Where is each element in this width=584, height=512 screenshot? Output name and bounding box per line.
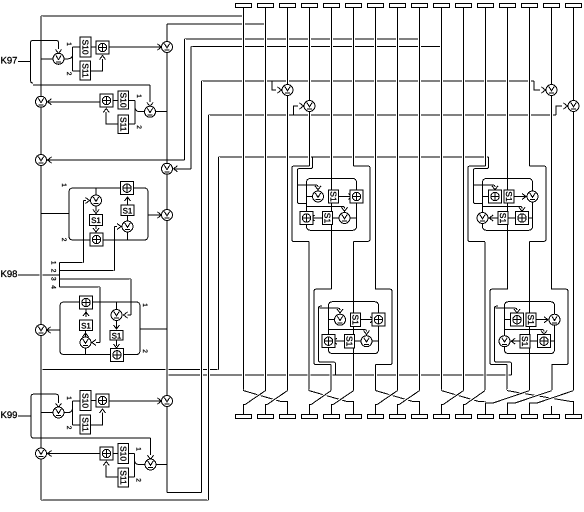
module M3 S1b-V2	[355, 340, 362, 342]
top terminal T12	[478, 4, 494, 8]
svg-text:2: 2	[135, 478, 142, 482]
K99a split curve	[68, 408, 73, 413]
cross wire feed7 to bar9 jog	[414, 402, 420, 415]
module M2 inner loop	[483, 179, 533, 231]
trunk T1	[242, 8, 245, 391]
cross wire feed8 to bar7	[377, 391, 398, 405]
svg-text:S11: S11	[80, 63, 90, 78]
svg-text:S1: S1	[520, 336, 530, 347]
trunk T12 upper	[484, 8, 487, 167]
XOR K99a	[96, 394, 109, 407]
trunk T3 upper	[286, 8, 289, 85]
cross wire feed5 to bar4	[311, 391, 331, 405]
module M3 V1	[335, 314, 346, 325]
XOR K99b	[100, 447, 113, 460]
K98 lower loop	[60, 302, 140, 355]
V node K99a	[53, 407, 64, 418]
module M1 arm1 hook	[298, 185, 319, 187]
rail to V K97a	[41, 58, 53, 60]
XOR K99a out	[109, 400, 161, 402]
bus from node V(167,47) to T2 y24	[167, 23, 266, 25]
trunk T9	[418, 8, 421, 391]
module M4 V2	[499, 336, 510, 347]
cross wire feed13 to bar16	[507, 391, 572, 402]
svg-text:3: 3	[50, 277, 57, 281]
module M4 V2 to S1b	[511, 340, 520, 342]
module M3 loop to V2	[372, 340, 379, 342]
S1r to XOR2	[127, 198, 129, 205]
loop to V K98l right	[116, 302, 118, 310]
arrow V to S1r K98l	[114, 325, 120, 329]
svg-text:S10: S10	[118, 92, 128, 107]
trunk T4 rerouted exit M1L	[308, 242, 311, 391]
svg-text:S1: S1	[81, 321, 91, 330]
hook w3	[128, 314, 132, 316]
module M3 V2	[361, 336, 372, 347]
net wire x167 middle	[166, 221, 169, 396]
module M3 S1a	[351, 313, 361, 326]
net wire x167 lower	[166, 407, 169, 493]
V node (167,215)	[162, 210, 173, 221]
box S10 K99a	[80, 391, 91, 411]
module M4 feed bend	[495, 306, 512, 375]
module M3 arrow S1a-XOR1	[370, 317, 374, 323]
svg-text:S1: S1	[329, 191, 339, 202]
module M1 arrow into cell1	[315, 186, 321, 190]
join x167	[161, 111, 167, 113]
svg-text:K99: K99	[1, 410, 18, 421]
bottom terminal B8	[390, 415, 406, 419]
cross wire feed11 to bar10 jog	[442, 405, 444, 415]
node V on T16 y106	[568, 101, 579, 112]
module M4 inner loop	[505, 302, 555, 354]
XOR K99b out to rail	[47, 453, 100, 455]
cross wire feed7 to bar9	[376, 391, 414, 402]
top terminal T6	[346, 4, 362, 8]
trunk T11	[462, 8, 465, 391]
cross wire feed2 to bar1	[245, 391, 266, 405]
V node K98l right	[111, 310, 122, 321]
bus to T10 y46.5	[191, 46, 442, 48]
wire x201.5 y81-bus down	[200, 81, 203, 493]
top terminal T4	[302, 4, 318, 8]
trunk T8	[396, 8, 399, 391]
arrow into V(167,47)	[158, 44, 162, 50]
V node K98u right	[122, 221, 133, 232]
module M1 XOR1	[350, 190, 363, 203]
K97a split curve up	[68, 54, 73, 59]
bottom terminal B7	[368, 415, 384, 419]
module M2 arrow S1a-V1	[522, 194, 526, 200]
top terminal T14	[522, 4, 538, 8]
arrow S1r to XOR2 K98u	[125, 197, 131, 201]
module M1 S1b	[323, 211, 333, 224]
V node on rail y453.5	[36, 448, 47, 459]
V to S1 K98l right	[116, 321, 118, 329]
module M4 XOR2	[538, 335, 551, 348]
wire x191 to V(167,169)	[174, 168, 192, 170]
cross wire feed9 to bar8 jog	[398, 405, 400, 415]
hook into V node T4	[294, 106, 299, 115]
node V on T15 y90	[546, 85, 557, 96]
module M1 S1a to XOR1	[339, 196, 351, 198]
module M3 arrow into cell2	[364, 331, 370, 335]
box S1 K98l left	[80, 320, 93, 331]
cross wire feed4 to bar6	[309, 391, 348, 402]
V node (167,169)	[162, 163, 173, 174]
cross wire feed14 to bar12	[493, 391, 530, 404]
XOR K98u top	[121, 182, 134, 195]
cross wire feed3 to bar2	[267, 391, 288, 405]
XOR to S1 K98l	[85, 309, 87, 317]
module M4 XOR1	[511, 313, 524, 326]
box S10 K97a	[80, 37, 91, 57]
V K99b join x167	[156, 464, 167, 466]
bottom terminal B5	[324, 415, 340, 419]
module M4 V1	[549, 314, 560, 325]
K97b split	[129, 101, 145, 125]
module M2 right detour wire	[530, 166, 547, 241]
wire x184.5 to V(41,160)	[48, 159, 185, 161]
module M4 S1b-XOR2	[530, 340, 538, 342]
module M2 arm1 hook	[474, 185, 496, 187]
stub bar15	[551, 406, 553, 415]
module M3 arm1 hook	[320, 308, 341, 310]
bottom terminal B13	[500, 415, 516, 419]
hook into V node T16	[556, 106, 562, 115]
module M3 XOR2	[322, 335, 335, 348]
arrow K98w3 into V(116.5,315)	[124, 312, 128, 318]
cross wire feed14 to bar12 jog	[486, 403, 493, 414]
arrow V to S1 K98l	[83, 333, 89, 337]
K97a split	[65, 47, 81, 71]
bus y157 feeding modules M1 M2	[219, 156, 489, 158]
module M1 V2	[339, 213, 350, 224]
module M2 V2 to S1b	[489, 217, 498, 219]
top terminal T7	[368, 4, 384, 8]
wire x184.5 T9-branch down	[183, 39, 186, 160]
K99 bracket	[31, 394, 34, 438]
hook w2	[115, 226, 118, 228]
svg-text:S10: S10	[81, 393, 91, 408]
module M1 S1b-V2	[333, 217, 340, 219]
svg-text:S1: S1	[323, 213, 333, 224]
S11 out up K99a	[91, 413, 103, 426]
XOR K97b	[100, 94, 113, 107]
K98 fan bracket	[59, 263, 61, 287]
module M3 arrow S1b-XOR2	[333, 338, 337, 344]
bottom terminal B14	[522, 415, 538, 419]
bottom terminal B10	[434, 415, 450, 419]
cross wire feed1 to bar3 jog	[282, 402, 288, 415]
bottom terminal B6	[346, 415, 362, 419]
trunk T5 rerouted exit M3L	[330, 365, 333, 391]
trunk T16 lower	[572, 112, 575, 391]
module M4 S1a	[526, 313, 536, 326]
module M1 inner loop	[307, 179, 357, 231]
svg-text:K97: K97	[1, 56, 18, 67]
arrow into V(41,453.5)	[48, 451, 52, 457]
svg-text:S11: S11	[118, 470, 128, 485]
box S11 K99b	[118, 468, 129, 487]
XOR K98l bottom	[111, 348, 124, 361]
K97 bracket top arm	[33, 40, 59, 49]
K98 wire 3 down	[130, 279, 133, 315]
bottom terminal B11	[456, 415, 472, 419]
bottom terminal B9	[412, 415, 428, 419]
cross wire feed15 to bar13	[515, 391, 552, 404]
S1 to XOR K98l right	[116, 340, 118, 346]
cross wire feed11 to bar10	[443, 391, 464, 405]
arrow into V K99a	[56, 403, 62, 407]
arrow K98u out into V(167,215)	[158, 212, 162, 218]
cross wire feed9 to bar8	[399, 391, 420, 405]
arrow into V(41,102)	[48, 99, 52, 105]
module M2 arm2 hook	[483, 206, 523, 208]
module M3 arrow into cell1	[337, 309, 343, 313]
module M3 left detour wire	[314, 289, 332, 365]
wire x218.5 y157-bus down	[217, 157, 220, 370]
svg-text:1: 1	[135, 447, 142, 451]
module M4 S1b	[520, 335, 530, 348]
arrow S1 to XOR2 K98l	[114, 344, 120, 348]
bottom terminal B15	[544, 415, 560, 419]
arm down x150.5	[150, 438, 152, 455]
hook into V node T15	[534, 81, 540, 90]
arrow into V(309.5,106)	[300, 103, 304, 109]
svg-text:K98: K98	[1, 269, 18, 280]
top terminal T13	[500, 4, 516, 8]
module M1 XOR2 to S1b	[313, 217, 323, 219]
svg-text:S1: S1	[123, 206, 133, 215]
svg-text:2: 2	[65, 426, 72, 430]
trunk T7 rerouted exit	[374, 365, 377, 391]
svg-text:1: 1	[65, 42, 72, 46]
bus y115 left part	[209, 114, 294, 116]
trunk T7 upper	[374, 8, 377, 290]
svg-text:S1: S1	[526, 314, 536, 325]
module M2 V2	[477, 213, 488, 224]
module M3 S1b	[345, 335, 355, 348]
module M4 arrow into cell2	[541, 331, 547, 335]
module M2 XOR2	[516, 212, 529, 225]
trunk T10	[440, 8, 443, 391]
V node K97a	[53, 53, 64, 64]
module M1 arrow S1b-XOR2	[311, 215, 315, 221]
rail to V K99a	[41, 412, 53, 414]
module M3 XOR1	[372, 313, 385, 326]
K99 bracket top arm	[34, 394, 59, 403]
V to S1	[95, 206, 97, 211]
box S11 K99a	[80, 415, 91, 434]
svg-text:S10: S10	[81, 39, 91, 54]
svg-text:S1: S1	[504, 191, 514, 202]
top terminal T10	[434, 4, 450, 8]
arrow into V(287.5,90)	[278, 87, 282, 93]
node V on T3 y90	[282, 85, 293, 96]
bottom terminal B3	[280, 415, 296, 419]
module M1 XOR2	[300, 212, 313, 225]
module M1 arm2 hook	[307, 206, 345, 208]
arrow K98w4 into V(85.5,342.5)	[92, 340, 96, 346]
S1 to V K98l	[85, 331, 87, 338]
svg-text:1: 1	[65, 396, 72, 400]
trunk T14 rerouted down through M4	[528, 242, 531, 391]
bottom terminal B1	[236, 415, 252, 419]
svg-text:S1: S1	[345, 336, 355, 347]
top terminal T8	[390, 4, 406, 8]
module M4 arrow into cell1	[514, 309, 520, 313]
trunk T14 upper	[528, 8, 531, 167]
S11 out up K97b	[106, 112, 118, 124]
module M1 left detour wire	[292, 166, 310, 242]
top terminal T9	[412, 4, 428, 8]
arrow into V(167,401)	[158, 398, 162, 404]
trunk T6 rerouted down through M3	[352, 242, 355, 391]
bottom terminal B16	[566, 415, 582, 419]
XOR K97a out	[109, 46, 161, 48]
cross wire feed12 to bar11	[465, 391, 485, 405]
cross wire feed2 to bar1 jog	[244, 405, 246, 415]
arrow into V(551.5,90)	[542, 87, 546, 93]
arrow into V(167,169)	[174, 166, 178, 172]
module M1 arrow into cell2	[342, 207, 348, 211]
hook w1	[84, 200, 87, 202]
top terminal T1	[236, 4, 252, 8]
bus y115 right part	[294, 114, 557, 116]
V node K99b right	[145, 459, 156, 470]
arrow into V(150.5,464.5)	[148, 455, 154, 459]
bus to T9 y39	[185, 38, 420, 40]
S11 out up K99b	[106, 465, 118, 477]
top terminal T16	[566, 4, 582, 8]
bus y81 feeding V nodes on T3/T15	[202, 80, 535, 82]
module M2 V1	[527, 191, 538, 202]
top terminal T3	[280, 4, 296, 8]
S10 to XOR K99b	[113, 453, 119, 455]
hook into V node T3	[272, 81, 276, 90]
box S11 K97a	[80, 61, 91, 80]
module M2 S1a	[504, 190, 514, 203]
arrow into V(573.5,106)	[564, 103, 568, 109]
node V(167,47)	[162, 42, 173, 53]
module M3 arm2 hook	[329, 330, 367, 332]
box S10 K99b	[118, 444, 129, 464]
arrow K98w1 into V(96,200.5)	[86, 198, 90, 204]
top terminal T11	[456, 4, 472, 8]
box S1 K98u left	[90, 215, 103, 226]
V node on rail y160	[36, 155, 47, 166]
module M4 left detour wire	[490, 289, 508, 365]
box S11 K97b	[118, 115, 129, 134]
bottom terminal B2	[258, 415, 274, 419]
box S1 K98l right	[110, 331, 123, 341]
arrow S11 to XOR K99b	[103, 462, 109, 466]
K98 fan stub 3	[60, 278, 132, 280]
net wire x167 upper	[166, 53, 169, 210]
V to loop bottom K98l	[85, 348, 87, 355]
module M4 left input	[505, 319, 512, 321]
module M2 arrow into cell2	[519, 207, 525, 211]
trunk T15 rerouted exit	[550, 365, 553, 391]
arrow S11 to XOR K99a	[100, 409, 106, 413]
K99b split	[129, 454, 145, 478]
module M4 arrow S1a-V1	[544, 317, 548, 323]
svg-text:S10: S10	[118, 446, 128, 461]
S11 out up K97a	[91, 59, 103, 71]
module M3 S1a to XOR1	[361, 319, 373, 321]
module M2 feed bend	[474, 157, 489, 204]
trunk T12 rerouted exit M2L	[484, 242, 487, 390]
cross wire feed15 to bar13 jog	[508, 403, 515, 414]
bus y375 feeding modules M3 M4	[167, 374, 512, 376]
svg-text:2: 2	[50, 269, 57, 273]
module M4 arm1 hook	[496, 308, 518, 310]
module M4 arrow S1b-V2	[511, 338, 515, 344]
svg-text:1: 1	[50, 261, 57, 265]
hook w4	[96, 342, 100, 344]
V node K98u left	[91, 195, 102, 206]
module M2 XOR2 to loop	[529, 217, 533, 219]
node V on T4 y106	[304, 101, 315, 112]
trunk T15 to M4	[550, 96, 553, 290]
box S1 K98u right	[121, 205, 134, 216]
module M2 S1b	[498, 211, 508, 224]
bus K97a-out to T1 y16	[41, 15, 244, 17]
trunk T3 lower	[286, 96, 289, 391]
cross wire feed4 to bar6 jog	[348, 402, 354, 415]
corner join x167-x201.5 y492.7	[167, 492, 202, 494]
arrow K98w2 into V(127.5,226.5)	[117, 224, 121, 230]
node V(167,401)	[162, 396, 173, 407]
cross wire feed12 to bar11 jog	[464, 405, 466, 415]
bottom terminal B4	[302, 415, 318, 419]
cross wire feed6 to bar5	[333, 391, 354, 405]
K98u output	[148, 214, 162, 216]
bus y370 rail to corner x218.5	[41, 369, 219, 371]
bottom bus y500	[41, 499, 209, 501]
module M3 left input	[329, 319, 335, 321]
XOR K98u bottom	[90, 233, 103, 246]
K98 upper loop	[69, 188, 148, 240]
cross wire feed10 to bar12	[442, 391, 480, 402]
V up to S1r	[127, 216, 129, 222]
cross wire feed10 to bar12 jog	[480, 402, 486, 415]
K99 bracket bottom arm y438	[34, 437, 151, 439]
V node on rail y330	[36, 325, 47, 336]
module M4 arm2 hook	[505, 330, 545, 332]
K98 fan stub 2	[60, 270, 115, 272]
wire x191 T10-branch down	[190, 47, 193, 170]
cross wire feed6 to bar5 jog	[332, 405, 334, 415]
trunk T15 upper	[550, 8, 553, 85]
cross wire feed13 to bar16 jog	[572, 402, 574, 415]
S10 to XOR K97a	[91, 46, 96, 48]
module M2 arrow S1b-V2	[489, 215, 493, 221]
loop to V top	[95, 188, 97, 195]
V node on rail y102	[36, 96, 47, 107]
S10 to XOR K97b	[113, 100, 118, 102]
K98 lead	[18, 274, 60, 276]
K97 bracket bottom arm y85	[33, 84, 150, 86]
trunk T2	[264, 8, 267, 391]
cross wire feed1 to bar3	[244, 391, 282, 402]
left rail x41	[40, 16, 43, 500]
module M2 left input	[483, 196, 490, 198]
V K97b to x167	[156, 111, 161, 113]
svg-text:1: 1	[135, 94, 142, 98]
svg-text:2: 2	[65, 72, 72, 76]
